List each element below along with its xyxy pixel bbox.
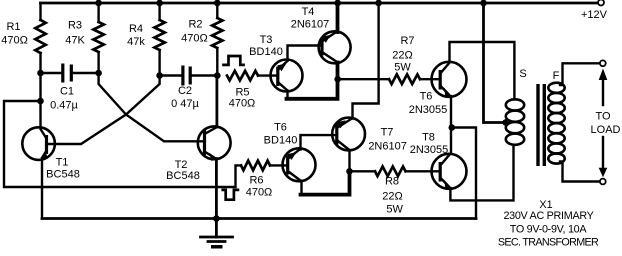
svg-text:470Ω: 470Ω xyxy=(229,97,256,109)
svg-text:R4: R4 xyxy=(129,23,143,35)
svg-text:+12V: +12V xyxy=(581,9,608,21)
svg-text:C1: C1 xyxy=(60,86,74,98)
svg-text:T8: T8 xyxy=(422,132,435,144)
svg-text:22Ω: 22Ω xyxy=(382,191,402,203)
svg-text:BC548: BC548 xyxy=(46,169,80,181)
svg-text:R2: R2 xyxy=(188,18,202,30)
svg-text:R3: R3 xyxy=(68,19,82,31)
svg-text:R1: R1 xyxy=(6,21,20,33)
svg-text:C2: C2 xyxy=(178,85,192,97)
svg-text:LOAD: LOAD xyxy=(591,124,621,136)
svg-text:T7: T7 xyxy=(381,127,394,139)
svg-text:0.47µ: 0.47µ xyxy=(50,100,78,112)
svg-text:R7: R7 xyxy=(400,35,414,47)
svg-text:470Ω: 470Ω xyxy=(1,34,28,46)
svg-text:470Ω: 470Ω xyxy=(246,187,273,199)
svg-text:T4: T4 xyxy=(302,6,315,18)
svg-text:TO: TO xyxy=(595,111,611,123)
svg-text:TO 9V-0-9V, 10A: TO 9V-0-9V, 10A xyxy=(510,223,588,235)
svg-text:T3: T3 xyxy=(260,34,273,46)
svg-text:T6: T6 xyxy=(274,122,287,134)
svg-text:R6: R6 xyxy=(249,174,263,186)
svg-text:2N6107: 2N6107 xyxy=(368,140,407,152)
svg-text:S: S xyxy=(519,68,526,80)
svg-text:2N6107: 2N6107 xyxy=(291,19,330,31)
svg-text:BD140: BD140 xyxy=(249,46,283,58)
svg-text:0 47µ: 0 47µ xyxy=(171,98,199,110)
svg-text:SEC. TRANSFORMER: SEC. TRANSFORMER xyxy=(498,237,599,249)
svg-text:T1: T1 xyxy=(56,157,69,169)
svg-text:230V AC PRIMARY: 230V AC PRIMARY xyxy=(503,210,593,222)
svg-text:5W: 5W xyxy=(386,204,403,216)
svg-text:2N3055: 2N3055 xyxy=(409,104,448,116)
svg-text:R8: R8 xyxy=(385,175,399,187)
svg-text:47K: 47K xyxy=(65,35,85,47)
svg-text:47k: 47k xyxy=(127,36,145,48)
svg-text:5W: 5W xyxy=(394,62,411,74)
svg-text:22Ω: 22Ω xyxy=(392,50,412,62)
svg-text:X1: X1 xyxy=(539,199,552,211)
svg-text:2N3055: 2N3055 xyxy=(410,144,449,156)
svg-text:F: F xyxy=(553,70,560,82)
svg-text:BD140: BD140 xyxy=(264,134,298,146)
svg-text:BC548: BC548 xyxy=(166,170,200,182)
svg-text:470Ω: 470Ω xyxy=(181,33,208,45)
svg-text:T6: T6 xyxy=(420,91,433,103)
